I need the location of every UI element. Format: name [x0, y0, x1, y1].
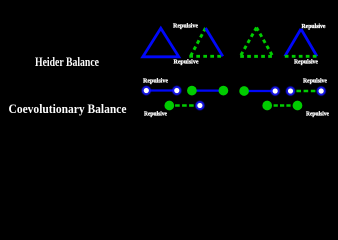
svg-text:Coevolutionary Balance: Coevolutionary Balance [9, 102, 127, 116]
svg-text:Repulsive: Repulsive [294, 60, 318, 66]
svg-text:Repulsive: Repulsive [303, 79, 327, 85]
svg-text:Repulsive: Repulsive [174, 60, 199, 66]
svg-text:Repulsive: Repulsive [143, 79, 168, 85]
svg-text:Repulsive: Repulsive [302, 24, 326, 30]
svg-text:Repulsive: Repulsive [144, 112, 167, 118]
svg-text:Repulsive: Repulsive [306, 112, 329, 118]
svg-text:Heider Balance: Heider Balance [35, 55, 99, 69]
svg-text:Repulsive: Repulsive [173, 24, 198, 30]
